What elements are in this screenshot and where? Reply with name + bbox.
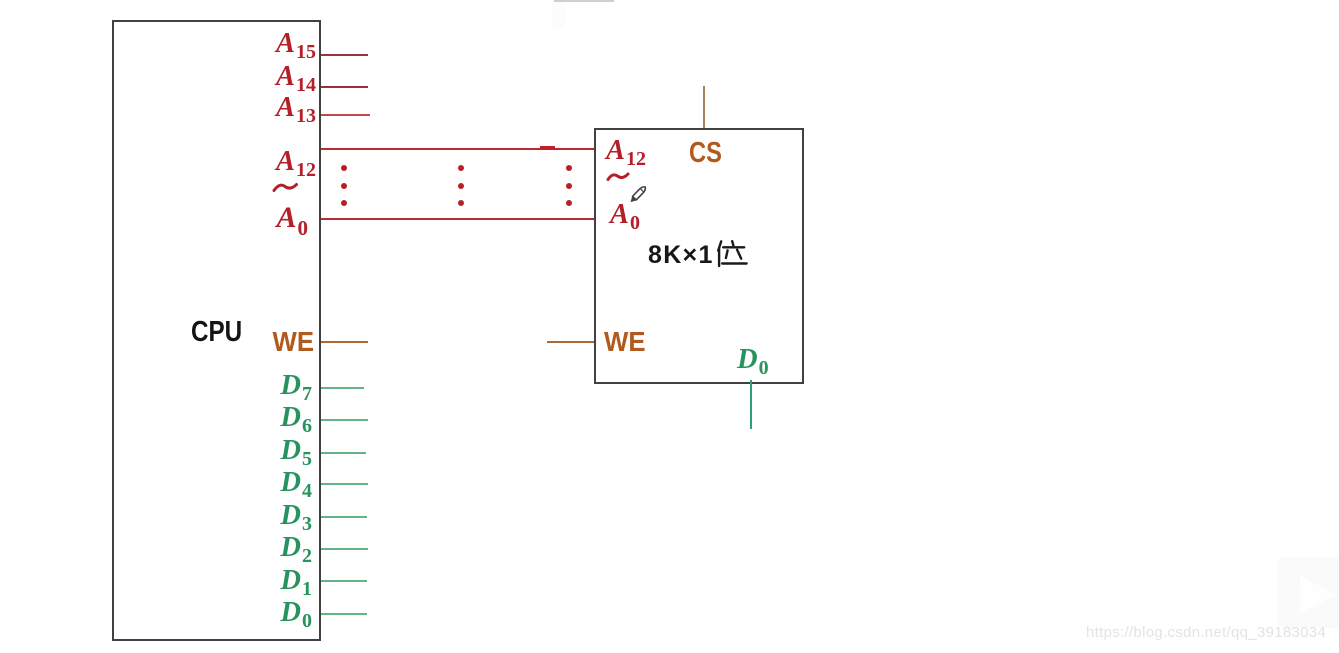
chip label wei glyph [717, 240, 748, 268]
wire D7 stub [321, 387, 364, 389]
wire A15 stub [321, 54, 368, 56]
pin WE label (CPU) [25, 327, 314, 357]
pin WE label (chip) [604, 327, 646, 357]
pin A12 label (chip) [606, 136, 646, 166]
node A0 label (CPU) [0, 203, 308, 233]
wire D1 stub [321, 580, 367, 582]
wire WE stub (CPU) [321, 341, 368, 343]
wire A12 bus line [321, 148, 594, 150]
pin D6 label [0, 403, 312, 433]
pin D1 label [0, 566, 312, 596]
watermark [1086, 624, 1326, 641]
wire A13 stub [321, 114, 370, 116]
play button overlay [1270, 552, 1339, 632]
pin D0 label (CPU) [0, 598, 312, 628]
wire D0 vertical (chip) [750, 380, 752, 429]
wire A12 thick dash mark [540, 146, 555, 150]
wire D4 stub [321, 483, 368, 485]
CPU box [112, 20, 321, 641]
wire WE stub (chip) [547, 341, 594, 343]
wire D3 stub [321, 516, 367, 518]
node A12 label (CPU) [0, 147, 316, 177]
chip label 8Kx1bit [648, 241, 714, 269]
wire D2 stub [321, 548, 368, 550]
pin A0 label (chip) [610, 200, 640, 230]
pin D5 label [0, 436, 312, 466]
pin D4 label [0, 468, 312, 498]
pin D3 label [0, 501, 312, 531]
top grey line segment [554, 0, 614, 2]
ellipsis dots column 3 [563, 162, 575, 210]
tilde between A12 and A0 (chip) [606, 170, 630, 185]
ellipsis dots column 1 [338, 162, 350, 210]
pin CS label [689, 138, 722, 168]
wire D5 stub [321, 452, 366, 454]
faint band top center [552, 0, 565, 28]
tilde between A12 and A0 (CPU) [272, 180, 299, 195]
node A15 label [0, 29, 316, 59]
pin D2 label [0, 533, 312, 563]
pin D0 label (chip) [737, 345, 769, 375]
node A13 label [0, 93, 316, 123]
wire CS vertical [703, 86, 705, 128]
wire D0 stub (CPU) [321, 613, 367, 615]
memory chip box U1 [594, 128, 804, 384]
wire A14 stub [321, 86, 368, 88]
wire D6 stub [321, 419, 368, 421]
ellipsis dots column 2 [455, 162, 467, 210]
wire A0 bus line [321, 218, 594, 220]
pin D7 label [0, 371, 312, 401]
CPU label [191, 317, 242, 347]
node A14 label [0, 62, 316, 92]
pencil cursor icon [626, 183, 650, 207]
